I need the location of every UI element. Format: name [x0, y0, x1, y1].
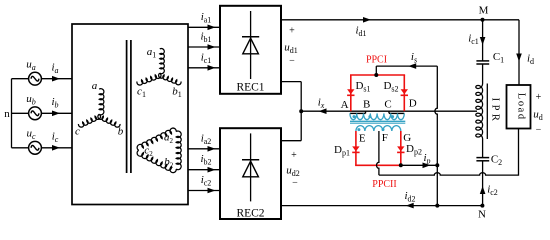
- svg-text:M: M: [479, 5, 489, 17]
- svg-text:−: −: [292, 178, 298, 189]
- svg-text:+: +: [291, 150, 297, 161]
- svg-text:c: c: [75, 126, 80, 138]
- svg-text:n: n: [4, 108, 10, 120]
- svg-text:IPR: IPR: [490, 98, 501, 125]
- svg-text:F: F: [382, 132, 388, 144]
- svg-text:A: A: [341, 99, 349, 111]
- svg-text:N: N: [478, 209, 486, 221]
- svg-text:B: B: [363, 99, 370, 111]
- svg-text:E: E: [359, 133, 366, 145]
- svg-text:D: D: [409, 98, 417, 110]
- svg-text:REC2: REC2: [236, 208, 264, 220]
- svg-text:PPCII: PPCII: [372, 179, 396, 190]
- svg-text:REC1: REC1: [236, 82, 264, 94]
- svg-text:−: −: [536, 125, 542, 136]
- svg-text:C: C: [384, 99, 391, 111]
- svg-text:+: +: [289, 26, 295, 37]
- svg-text:+: +: [536, 92, 542, 103]
- svg-text:b: b: [118, 126, 124, 138]
- svg-text:−: −: [289, 56, 295, 67]
- svg-text:a: a: [92, 80, 98, 92]
- svg-text:PPCI: PPCI: [366, 55, 387, 66]
- svg-text:Load: Load: [515, 93, 526, 121]
